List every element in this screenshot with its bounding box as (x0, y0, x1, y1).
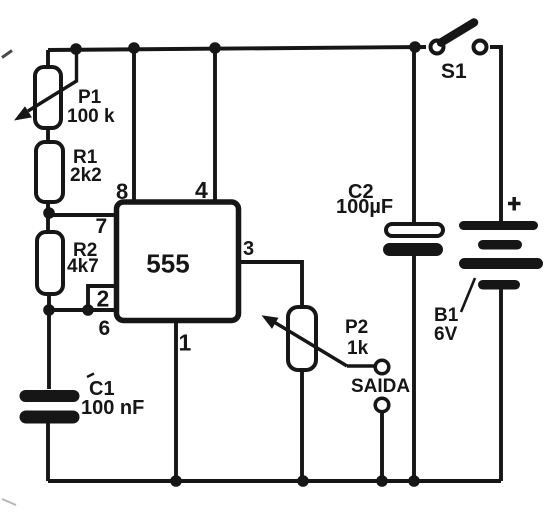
wire pin 6 (49, 308, 114, 312)
label C1 100nF (81, 378, 144, 419)
terminal circle SAIDA upper (375, 360, 389, 374)
wire battery bottom to bottom rail (499, 289, 503, 481)
B1 pointer line (461, 278, 475, 312)
svg-text:6: 6 (99, 317, 111, 340)
wire P1 to R1 (46, 128, 50, 143)
svg-text:8: 8 (116, 179, 128, 204)
svg-text:100µF: 100µF (336, 196, 393, 218)
terminal circle SAIDA lower (375, 398, 389, 412)
label P1 100k (67, 87, 115, 127)
label B1 6V (434, 305, 459, 345)
svg-text:100 nF: 100 nF (81, 397, 144, 419)
label R1 2k2 (70, 147, 102, 186)
svg-text:3: 3 (243, 238, 254, 260)
label R2 4k7 (67, 240, 99, 277)
accent mark above C1 (87, 374, 94, 378)
wire bottom rail (48, 479, 501, 483)
svg-text:4k7: 4k7 (67, 256, 99, 277)
label P2 1k (345, 317, 369, 359)
wire pin 3 (239, 262, 302, 308)
wire C2 top (412, 47, 416, 225)
wire R2 to C1 through node (47, 294, 51, 389)
svg-text:6V: 6V (434, 324, 458, 345)
wire pin 8 (132, 48, 136, 202)
potentiometer P1 (14, 50, 77, 128)
wire P2 bottom (300, 370, 304, 481)
svg-text:S1: S1 (441, 60, 467, 83)
svg-text:P1: P1 (78, 87, 102, 108)
svg-text:4: 4 (195, 177, 208, 203)
svg-text:SAIDA: SAIDA (351, 376, 410, 397)
wire SAIDA lower to bottom rail (380, 412, 384, 481)
op-amp U1 555 IC body (117, 202, 239, 321)
wire R1 to R2 through node (46, 202, 50, 233)
battery plus sign (508, 197, 521, 211)
svg-text:B1: B1 (434, 305, 459, 326)
capacitor C1 (20, 390, 80, 424)
wire top rail (48, 47, 426, 50)
battery B1 (459, 221, 543, 290)
svg-text:100 k: 100 k (67, 106, 115, 127)
wire C1 to bottom rail (46, 423, 50, 481)
junction dot pin2/pin6 (82, 304, 94, 316)
svg-text:2k2: 2k2 (70, 165, 102, 186)
wire pin 7 (49, 213, 114, 217)
svg-text:555: 555 (146, 249, 189, 279)
wire C2 bottom (412, 256, 416, 481)
wire pin 2 loop (88, 286, 116, 310)
svg-text:2: 2 (97, 286, 110, 312)
wire pin 1 (174, 321, 178, 481)
resistor R1 (36, 142, 63, 202)
junction dots top rail (70, 41, 421, 55)
wire pin 4 (213, 48, 217, 202)
wire left rail stub to P1 (46, 50, 50, 68)
svg-text:7: 7 (96, 215, 108, 238)
svg-text:1: 1 (179, 330, 192, 356)
resistor R2 (37, 232, 63, 294)
node A dot R1/R2/pin7 (43, 207, 55, 219)
label C2 100uF (336, 181, 393, 218)
switch S1 (431, 23, 487, 54)
svg-text:P2: P2 (345, 317, 368, 338)
wire S1 right circle to right rail corner (490, 47, 501, 221)
node B dot R2/C1/pin6 (43, 304, 55, 316)
svg-text:1k: 1k (347, 338, 369, 359)
speck bottom-left (2, 499, 16, 505)
speck top-left (2, 51, 12, 58)
junction dots bottom rail (170, 475, 420, 487)
potentiometer P2 (262, 307, 375, 370)
capacitor C2 (383, 224, 443, 256)
